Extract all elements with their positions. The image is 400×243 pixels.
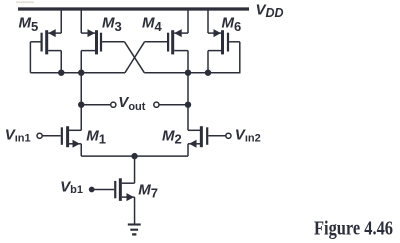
- svg-text:Vout: Vout: [118, 94, 145, 113]
- svg-text:Figure 4.46: Figure 4.46: [314, 219, 393, 240]
- svg-text:M1: M1: [86, 127, 106, 146]
- svg-text:Vın2: Vın2: [235, 126, 261, 144]
- svg-text:M4: M4: [142, 15, 163, 34]
- svg-text:M7: M7: [138, 181, 158, 200]
- svg-text:M6: M6: [222, 15, 242, 34]
- svg-text:VDD: VDD: [256, 2, 284, 21]
- svg-text:M3: M3: [102, 15, 122, 34]
- svg-text:Vb1: Vb1: [60, 179, 83, 197]
- svg-text:M2: M2: [162, 127, 182, 146]
- svg-text:Vın1: Vın1: [5, 126, 31, 144]
- svg-text:M5: M5: [19, 15, 39, 34]
